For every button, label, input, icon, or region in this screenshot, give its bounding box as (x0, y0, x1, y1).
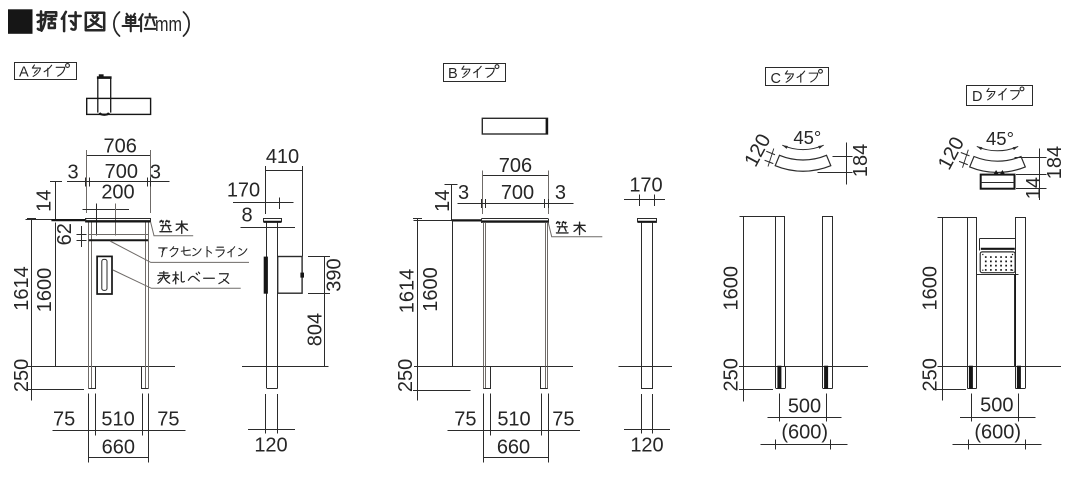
svg-text:45°: 45° (793, 127, 821, 148)
svg-text:75: 75 (454, 409, 476, 431)
A front body side walls (88, 222, 90, 366)
svg-text:120: 120 (740, 131, 775, 171)
svg-text:75: 75 (552, 409, 574, 431)
svg-text:3: 3 (458, 182, 469, 204)
title（単位mm） (114, 12, 120, 36)
A side ground line (242, 366, 328, 368)
A front label アクセントライン (159, 248, 167, 257)
A front accent line thick (89, 239, 148, 241)
svg-text:(600): (600) (781, 421, 828, 443)
C front right post (823, 217, 833, 367)
svg-text:250: 250 (395, 359, 417, 392)
C front left post (776, 217, 785, 367)
svg-text:1600: 1600 (420, 267, 442, 312)
svg-text:75: 75 (157, 409, 179, 431)
A front coping 笠木 bar (26, 219, 52, 221)
A side dim line 170 (233, 202, 294, 204)
svg-text:75: 75 (53, 409, 75, 431)
A front ground line (28, 366, 176, 368)
D plan curved coping band (970, 157, 1026, 173)
B side dim line 170 (624, 199, 665, 201)
title kanji 据付図 (37, 11, 56, 30)
C front top extension line (740, 216, 777, 218)
A side dim line 8 (241, 227, 296, 229)
A front nameplate base inner (102, 259, 107, 290)
svg-text:700: 700 (501, 182, 534, 204)
svg-text:3: 3 (67, 161, 78, 183)
A front dim line 706 (86, 155, 150, 157)
svg-text:250: 250 (920, 358, 942, 391)
D plan dim 120 ticks (961, 153, 970, 156)
D front buried posts (967, 366, 969, 388)
B side cap (638, 218, 657, 220)
A-type plan view cap arc (100, 113, 109, 115)
B side post (641, 223, 643, 367)
svg-text:250: 250 (11, 359, 33, 392)
svg-text:14: 14 (34, 190, 56, 212)
D front intercom cap (979, 238, 981, 250)
svg-text:(600): (600) (974, 421, 1021, 443)
svg-text:706: 706 (104, 136, 137, 158)
svg-text:660: 660 (497, 437, 530, 459)
B front dim line 706 (482, 175, 549, 177)
svg-text:D: D (972, 89, 982, 105)
svg-text:510: 510 (497, 409, 530, 431)
A front accent area thin line (89, 234, 148, 236)
A side buried post (266, 366, 268, 388)
B front coping 笠木 bar (414, 220, 452, 222)
svg-text:45°: 45° (986, 128, 1014, 149)
svg-text:170: 170 (629, 175, 662, 197)
A-type label box (15, 63, 77, 80)
svg-text:200: 200 (101, 181, 134, 203)
svg-text:3: 3 (555, 182, 566, 204)
B front ground line (414, 366, 573, 368)
D plan contact arrows (994, 170, 1005, 174)
C plan dim 120 ticks (766, 151, 775, 154)
svg-text:B: B (448, 66, 458, 82)
svg-text:8: 8 (241, 205, 252, 227)
A front leader 笠木 (151, 222, 194, 236)
A front dim line 700 (67, 181, 169, 183)
D front intercom slot (981, 248, 1015, 250)
svg-text:500: 500 (788, 395, 821, 417)
C front ground line (739, 366, 868, 368)
C plan curved coping band (775, 155, 831, 171)
A-type plan view base plate (87, 98, 151, 114)
A side cap (264, 218, 281, 220)
svg-text:184: 184 (1044, 146, 1065, 179)
C front buried posts (775, 366, 777, 388)
C-type label box (766, 68, 829, 86)
svg-text:660: 660 (102, 437, 135, 459)
svg-text:3: 3 (150, 161, 161, 183)
svg-text:14: 14 (432, 190, 454, 212)
B front leader 笠木 (548, 223, 602, 237)
svg-text:C: C (771, 71, 781, 87)
D front grille dots (982, 254, 1013, 271)
A side post (266, 223, 268, 367)
A front leader アクセントライン (110, 241, 249, 262)
svg-text:706: 706 (499, 155, 532, 177)
B front dim line 700 (458, 203, 574, 205)
svg-text:500: 500 (980, 395, 1013, 417)
svg-text:mm: mm (155, 14, 182, 36)
svg-text:1600: 1600 (920, 266, 942, 311)
A front leader 表札ベース (113, 270, 241, 288)
A side nameplate black bar (264, 257, 267, 293)
B-type plan view coping (482, 118, 547, 134)
A front dim line 200 (83, 209, 129, 211)
svg-text:410: 410 (266, 146, 299, 168)
D plan 45 degree dim arc (977, 146, 1018, 150)
A front label 笠木 (160, 220, 172, 231)
D front panel below grille (976, 274, 1018, 276)
D front left post (968, 218, 977, 367)
B front body side walls (483, 223, 485, 366)
B side ground line (618, 366, 672, 368)
A side box latch tab (301, 273, 304, 277)
svg-text:120: 120 (254, 434, 287, 456)
svg-text:1600: 1600 (721, 266, 743, 311)
D plan nameplate box (981, 175, 1015, 189)
A side function box (278, 257, 302, 294)
D front top extension line (938, 217, 968, 219)
svg-text:250: 250 (721, 358, 743, 391)
A front buried legs (88, 366, 90, 389)
B front label 笠木 (556, 222, 568, 233)
A side dim line 410 (265, 170, 302, 172)
svg-text:184: 184 (850, 144, 872, 177)
svg-text:120: 120 (630, 434, 663, 456)
D front right post (1016, 218, 1026, 367)
D front ground line (938, 366, 1061, 368)
svg-text:1614: 1614 (11, 266, 33, 311)
svg-text:1600: 1600 (34, 268, 56, 313)
svg-text:700: 700 (105, 161, 138, 183)
svg-text:A: A (19, 65, 29, 81)
B front buried legs (483, 367, 485, 389)
D front intercom grille (980, 252, 1015, 273)
svg-text:804: 804 (305, 313, 327, 346)
A-type plan view post (97, 78, 99, 113)
C plan 45 degree dim arc (782, 145, 823, 149)
A-type plan view nameplate tab (99, 75, 103, 77)
svg-text:62: 62 (54, 223, 76, 245)
D-type label box (967, 86, 1033, 106)
svg-text:1614: 1614 (396, 269, 418, 314)
title black square bullet (9, 10, 33, 34)
B-type label box (444, 64, 506, 82)
A front nameplate base outer (97, 256, 112, 294)
svg-text:510: 510 (101, 409, 134, 431)
svg-text:390: 390 (324, 258, 346, 291)
B side buried post (641, 367, 643, 389)
A front label 表札ベース (158, 272, 170, 284)
svg-text:170: 170 (227, 180, 260, 202)
